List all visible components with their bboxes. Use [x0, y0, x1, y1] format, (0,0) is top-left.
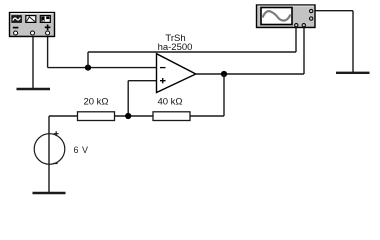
ground — [33, 192, 66, 194]
svg-text:6 V: 6 V — [74, 145, 89, 155]
terminal labels — [13, 27, 19, 29]
oscilloscope XSC1 — [257, 5, 316, 28]
svg-text:20 kΩ: 20 kΩ — [83, 97, 108, 108]
function generator XFG1 — [10, 13, 55, 37]
op-amp label TrSh ha-2500 — [158, 33, 193, 53]
wire — [48, 116, 50, 193]
svg-text:40 kΩ: 40 kΩ — [157, 97, 182, 108]
wire — [87, 52, 89, 68]
square button — [40, 16, 50, 23]
node — [125, 113, 131, 119]
wire — [48, 67, 157, 69]
wire — [303, 25, 305, 74]
wire — [88, 51, 296, 53]
source V1 — [34, 131, 88, 164]
resistor R1 — [78, 97, 115, 121]
wire — [32, 34, 34, 89]
wire — [49, 115, 78, 117]
node — [221, 71, 227, 77]
wire — [115, 115, 154, 117]
wire — [295, 25, 297, 52]
wire — [223, 74, 225, 116]
wire — [352, 11, 354, 73]
scope screen — [261, 8, 292, 25]
scope trace — [263, 11, 291, 20]
triangle button — [26, 16, 36, 23]
ground — [336, 72, 370, 74]
wire — [190, 115, 224, 117]
resistor R2 — [153, 97, 190, 121]
op-amp U1 — [157, 54, 196, 93]
wire — [196, 73, 304, 75]
wire — [127, 81, 129, 116]
terminals — [295, 24, 298, 27]
wire — [47, 34, 49, 68]
wire — [315, 10, 353, 12]
terminals — [14, 31, 18, 35]
sine button — [12, 16, 22, 23]
svg-text:ha-2500: ha-2500 — [158, 42, 193, 53]
wire — [128, 80, 156, 82]
node — [85, 65, 91, 71]
ground — [17, 88, 51, 90]
